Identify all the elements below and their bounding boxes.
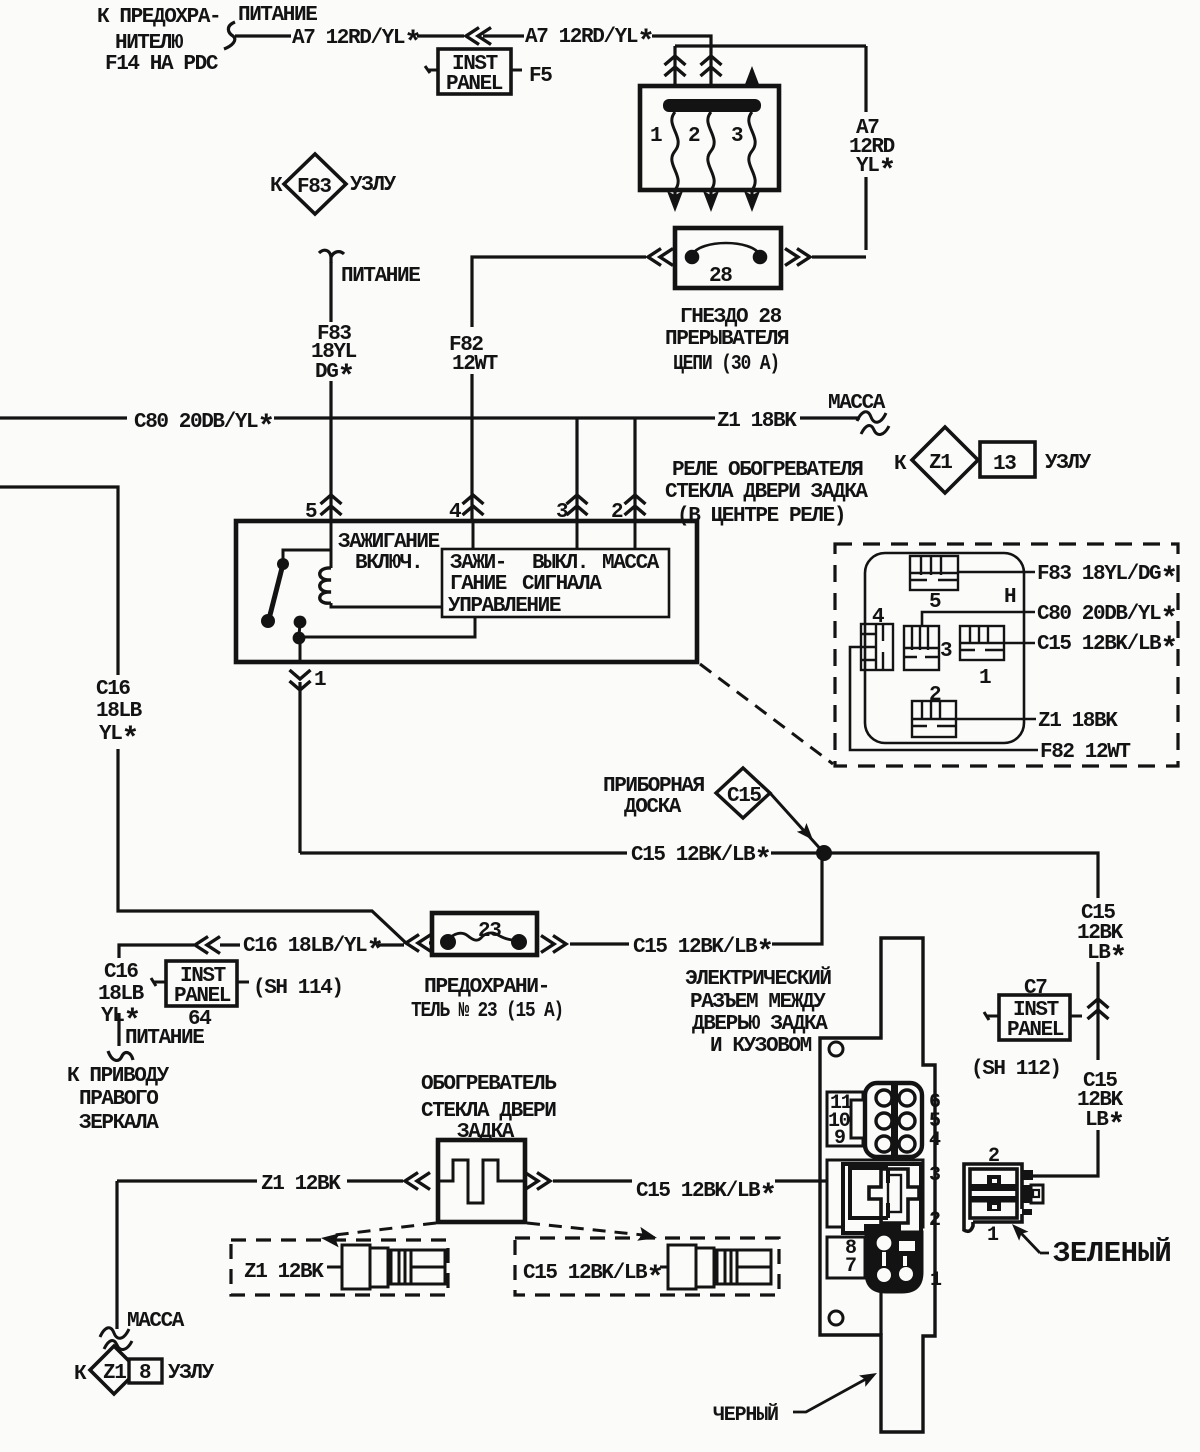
svg-text:УЗЛУ: УЗЛУ (168, 1362, 215, 1385)
svg-text:Z1: Z1 (103, 1362, 126, 1385)
svg-text:ПРЕРЫВАТЕЛЯ: ПРЕРЫВАТЕЛЯ (665, 328, 789, 351)
svg-text:3: 3 (556, 501, 568, 524)
svg-text:13: 13 (993, 453, 1016, 476)
svg-text:МАССА: МАССА (828, 392, 886, 415)
svg-text:2: 2 (611, 501, 623, 524)
svg-text:Z1: Z1 (929, 452, 952, 475)
svg-text:9: 9 (834, 1127, 845, 1150)
svg-text:23: 23 (478, 920, 501, 943)
svg-text:УПРАВЛЕНИЕ: УПРАВЛЕНИЕ (448, 595, 561, 618)
svg-text:НИТЕЛЮ: НИТЕЛЮ (115, 32, 183, 55)
svg-text:1: 1 (987, 1224, 999, 1247)
svg-text:СИГНАЛА: СИГНАЛА (522, 573, 602, 596)
svg-text:ВЫКЛ.: ВЫКЛ. (532, 552, 588, 575)
svg-text:ПИТАНИЕ: ПИТАНИЕ (238, 4, 317, 27)
svg-text:МАССА: МАССА (602, 552, 660, 575)
svg-text:PANEL: PANEL (174, 985, 231, 1008)
svg-text:C16: C16 (96, 678, 130, 701)
svg-text:18LB: 18LB (96, 700, 143, 723)
svg-text:3: 3 (731, 125, 743, 148)
svg-text:2: 2 (688, 125, 700, 148)
svg-text:C7: C7 (1024, 977, 1047, 1000)
svg-text:УЗЛУ: УЗЛУ (1045, 452, 1092, 475)
svg-text:Z1 12BK: Z1 12BK (261, 1173, 341, 1196)
svg-text:Z1 12BK: Z1 12BK (244, 1261, 324, 1284)
svg-text:12WT: 12WT (452, 353, 498, 376)
svg-text:ЗЕЛЕНЫЙ: ЗЕЛЕНЫЙ (1053, 1236, 1171, 1270)
svg-text:ДВЕРЬЮ ЗАДКА: ДВЕРЬЮ ЗАДКА (692, 1013, 828, 1036)
svg-text:(SH 114): (SH 114) (253, 977, 343, 1000)
svg-text:PANEL: PANEL (446, 73, 503, 96)
svg-text:ЗАЖИГАНИЕ: ЗАЖИГАНИЕ (338, 531, 440, 554)
svg-text:ПРИБОРНАЯ: ПРИБОРНАЯ (603, 775, 705, 798)
svg-text:2: 2 (988, 1145, 999, 1168)
svg-text:ЭЛЕКТРИЧЕСКИЙ: ЭЛЕКТРИЧЕСКИЙ (685, 967, 831, 991)
svg-text:F14 НА PDC: F14 НА PDC (105, 53, 219, 76)
svg-text:2: 2 (929, 1209, 940, 1232)
svg-text:8: 8 (139, 1362, 151, 1385)
svg-text:28: 28 (709, 265, 732, 288)
svg-text:ЗАДКА: ЗАДКА (457, 1121, 515, 1144)
svg-text:К: К (894, 453, 907, 476)
svg-text:1: 1 (979, 667, 991, 690)
svg-text:F5: F5 (529, 65, 552, 88)
svg-text:ГНЕЗДО 28: ГНЕЗДО 28 (680, 306, 782, 329)
svg-text:4: 4 (449, 501, 461, 524)
svg-text:F83: F83 (297, 176, 331, 199)
svg-text:(В ЦЕНТРЕ РЕЛЕ): (В ЦЕНТРЕ РЕЛЕ) (677, 505, 845, 528)
svg-text:ЗЕРКАЛА: ЗЕРКАЛА (79, 1112, 159, 1135)
svg-text:18LB: 18LB (98, 983, 145, 1006)
svg-text:ОБОГРЕВАТЕЛЬ: ОБОГРЕВАТЕЛЬ (421, 1073, 557, 1096)
svg-text:ТЕЛЬ № 23 (15 А): ТЕЛЬ № 23 (15 А) (411, 1000, 563, 1023)
svg-text:3: 3 (940, 640, 952, 663)
svg-text:Z1 18BK: Z1 18BK (717, 410, 797, 433)
svg-text:Z1 18BK: Z1 18BK (1038, 710, 1118, 733)
svg-text:СТЕКЛА ДВЕРИ: СТЕКЛА ДВЕРИ (421, 1100, 556, 1123)
svg-text:1: 1 (650, 125, 662, 148)
svg-text:МАССА: МАССА (127, 1310, 185, 1333)
svg-text:К ПРЕДОХРА-: К ПРЕДОХРА- (97, 6, 220, 29)
svg-text:1: 1 (314, 669, 326, 692)
svg-text:К: К (74, 1363, 87, 1386)
svg-text:7: 7 (845, 1255, 856, 1278)
svg-text:ПИТАНИЕ: ПИТАНИЕ (341, 265, 420, 288)
svg-text:ВКЛЮЧ.: ВКЛЮЧ. (355, 552, 422, 575)
svg-text:ДОСКА: ДОСКА (624, 796, 682, 819)
svg-text:К: К (270, 175, 283, 198)
svg-text:5: 5 (305, 501, 317, 524)
svg-text:C15: C15 (727, 785, 761, 808)
svg-text:C16: C16 (104, 961, 138, 984)
svg-text:К ПРИВОДУ: К ПРИВОДУ (67, 1065, 170, 1088)
svg-text:PANEL: PANEL (1007, 1019, 1064, 1042)
svg-text:F82 12WT: F82 12WT (1040, 741, 1130, 764)
svg-text:ПИТАНИЕ: ПИТАНИЕ (125, 1027, 204, 1050)
svg-text:УЗЛУ: УЗЛУ (350, 174, 397, 197)
svg-text:ЧЕРНЫЙ: ЧЕРНЫЙ (713, 1403, 778, 1427)
svg-text:1: 1 (930, 1269, 942, 1292)
svg-text:РАЗЪЕМ МЕЖДУ: РАЗЪЕМ МЕЖДУ (690, 991, 826, 1014)
svg-text:ПРЕДОХРАНИ-: ПРЕДОХРАНИ- (424, 976, 549, 999)
svg-text:2: 2 (929, 684, 941, 707)
svg-text:СТЕКЛА ДВЕРИ ЗАДКА: СТЕКЛА ДВЕРИ ЗАДКА (665, 481, 868, 504)
svg-text:ПРАВОГО: ПРАВОГО (79, 1088, 158, 1111)
svg-text:4: 4 (872, 606, 884, 629)
svg-text:3: 3 (929, 1164, 940, 1187)
svg-text:H: H (1004, 586, 1016, 609)
svg-text:4: 4 (929, 1129, 941, 1152)
svg-text:ЗАЖИ-: ЗАЖИ- (450, 552, 506, 575)
svg-text:И КУЗОВОМ: И КУЗОВОМ (710, 1035, 812, 1058)
svg-text:ЦЕПИ (30 А): ЦЕПИ (30 А) (673, 353, 779, 376)
svg-text:ГАНИЕ: ГАНИЕ (450, 573, 507, 596)
svg-text:РЕЛЕ ОБОГРЕВАТЕЛЯ: РЕЛЕ ОБОГРЕВАТЕЛЯ (672, 459, 863, 482)
svg-text:(SH 112): (SH 112) (971, 1058, 1061, 1081)
svg-text:5: 5 (929, 591, 941, 614)
